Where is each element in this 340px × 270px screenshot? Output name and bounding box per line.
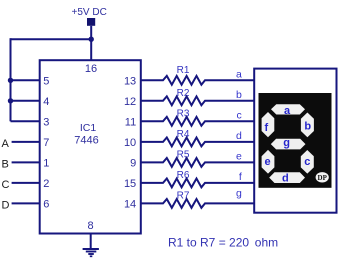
svg-text:+5V DC: +5V DC [72, 7, 107, 18]
svg-text:f: f [239, 171, 242, 183]
svg-text:12: 12 [124, 96, 136, 108]
svg-text:16: 16 [85, 63, 97, 75]
svg-text:g: g [236, 187, 242, 199]
junction dot at +5V node [89, 37, 94, 42]
wire: power stem from square to junction [90, 26, 92, 40]
power terminal square [87, 18, 95, 26]
svg-text:9: 9 [130, 158, 136, 170]
svg-text:1: 1 [43, 158, 49, 170]
svg-text:b: b [236, 89, 242, 101]
svg-text:C: C [2, 179, 10, 191]
svg-text:b: b [304, 121, 311, 133]
resistor R5 [141, 149, 254, 166]
wire: vertical from junction to IC pin 16 [90, 40, 92, 60]
segment f [262, 112, 275, 137]
svg-text:8: 8 [87, 220, 93, 232]
segment g [271, 139, 306, 150]
svg-text:e: e [236, 151, 242, 163]
svg-text:11: 11 [125, 117, 136, 129]
svg-text:a: a [236, 69, 242, 81]
svg-text:4: 4 [43, 96, 49, 108]
wire: A to pin 7 [12, 141, 40, 143]
svg-text:c: c [237, 110, 242, 122]
svg-text:14: 14 [124, 199, 136, 211]
ground symbol [83, 249, 99, 256]
svg-text:R1: R1 [177, 65, 190, 76]
svg-text:g: g [283, 137, 290, 149]
svg-text:e: e [265, 156, 271, 168]
svg-text:3: 3 [43, 117, 49, 129]
svg-text:D: D [2, 199, 10, 211]
junction dot pin5 rail [8, 78, 13, 83]
svg-text:7: 7 [43, 137, 49, 149]
IC IC1 7446 body [40, 60, 141, 233]
svg-text:R1 to R7 = 220 ohm: R1 to R7 = 220 ohm [168, 235, 278, 249]
svg-text:6: 6 [43, 199, 49, 211]
svg-text:10: 10 [124, 137, 136, 149]
segment d [269, 172, 305, 183]
wire: D to pin 6 [12, 202, 40, 204]
svg-text:A: A [2, 138, 10, 150]
decimal point DP [316, 172, 329, 182]
svg-text:DP: DP [318, 174, 328, 182]
svg-text:5: 5 [43, 76, 49, 88]
svg-text:B: B [2, 158, 9, 170]
segment a [271, 104, 305, 114]
resistor R4 [141, 129, 254, 146]
display module box [254, 69, 336, 213]
wire: C to pin 2 [12, 182, 40, 184]
svg-text:f: f [264, 122, 268, 134]
wire: left vertical rail [10, 38, 12, 121]
ground stem [90, 234, 92, 250]
svg-text:13: 13 [124, 76, 136, 88]
svg-text:15: 15 [124, 178, 136, 190]
wire: B to pin 1 [12, 161, 40, 163]
wire: rail to pin 4 [11, 100, 40, 102]
segment c [301, 150, 314, 174]
svg-text:IC1: IC1 [80, 122, 97, 134]
resistor R2 [141, 88, 254, 105]
resistor R6 [141, 170, 254, 187]
svg-text:a: a [284, 105, 291, 117]
wire: rail to pin 5 [11, 79, 40, 81]
wire: top horizontal rail [11, 38, 92, 40]
svg-text:d: d [236, 130, 242, 142]
svg-text:7446: 7446 [74, 135, 98, 147]
resistor R1 [141, 65, 254, 85]
resistor R3 [141, 108, 254, 125]
wire: rail to pin 3 [11, 120, 40, 122]
svg-text:c: c [304, 156, 310, 168]
segment b [301, 113, 314, 138]
svg-text:d: d [282, 173, 289, 185]
display black face [259, 93, 332, 188]
svg-text:2: 2 [43, 178, 49, 190]
resistor R7 [141, 190, 254, 207]
segment e [262, 150, 275, 174]
junction dot pin4 rail [8, 98, 13, 103]
